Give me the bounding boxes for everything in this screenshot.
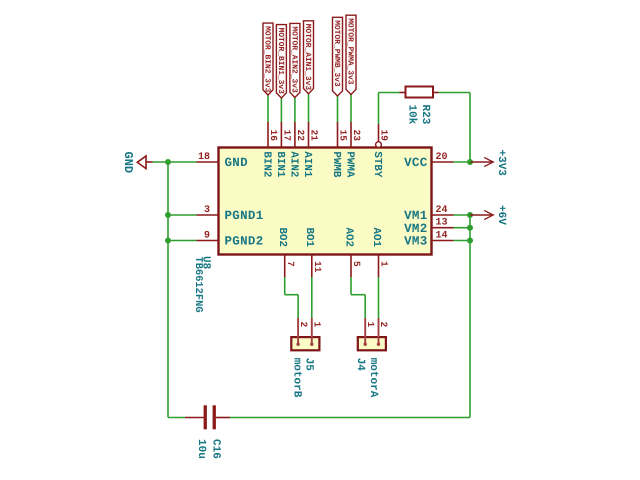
svg-text:GND: GND [121,152,135,174]
op-amp U8 TB6612FNG body [219,148,432,255]
svg-text:GND: GND [225,156,249,170]
pin 3 PGND1 (left) [197,205,264,223]
svg-text:AIN2: AIN2 [287,151,299,177]
wire bottom rail left segment [168,417,185,419]
connector J4 motorA body [358,337,386,350]
wire VM3 to junction [454,240,471,242]
svg-text:PGND2: PGND2 [225,235,264,249]
wire AO2 to J4 pin 1 (jog) [351,277,365,318]
svg-text:20: 20 [436,152,448,163]
svg-text:PWMB: PWMB [330,151,342,177]
svg-text:9: 9 [204,230,210,241]
wire flag MOTOR_AIN1_3V3 to pin [308,94,310,122]
svg-text:13: 13 [436,218,448,229]
svg-text:1: 1 [311,322,322,328]
svg-text:BO1: BO1 [303,228,315,248]
pin 15 PWMB (top) [330,122,349,178]
U8 value TB6612FNG [192,257,204,313]
svg-text:17: 17 [282,130,293,142]
wire bottom rail right segment [230,417,470,419]
wire VM1 to junction [454,214,471,216]
net label flag MOTOR_PWMA_3V3 [345,15,356,94]
junction VM1 [467,212,473,218]
C16 reference [209,439,221,459]
svg-text:18: 18 [198,152,210,163]
net label flag MOTOR_BIN1_3V3 [276,25,287,98]
pin 17 BIN1 (top) [274,122,293,178]
pin 20 VCC (right) [404,152,453,170]
pin 5 AO2 (bottom) [342,228,362,278]
svg-text:MOTOR_BIN1_3v3: MOTOR_BIN1_3v3 [276,28,285,95]
junction VM3 [467,238,473,244]
connector J5 motorB value [290,358,302,398]
R23 reference [419,105,431,125]
svg-text:5: 5 [351,261,362,267]
net label flag MOTOR_BIN2_3V3 [262,23,273,95]
net label flag MOTOR_AIN1_3V3 [303,21,314,94]
wire STBY up and over to R23 [379,93,400,125]
svg-text:1: 1 [379,261,390,267]
svg-text:10u: 10u [195,439,207,459]
svg-text:10k: 10k [405,105,417,125]
wire to PGND1 [168,214,197,216]
svg-text:16: 16 [268,130,279,142]
svg-text:23: 23 [351,130,362,142]
pin 14 VM3 (right) [404,230,453,248]
power flag +6V arrow [470,210,493,219]
svg-text:MOTOR_AIN2_3v3: MOTOR_AIN2_3v3 [289,26,298,93]
connector J4 motorA reference [354,358,366,372]
svg-text:15: 15 [338,130,349,142]
svg-text:R23: R23 [419,105,431,125]
wire flag MOTOR_PWMB_3V3 to pin [337,96,339,122]
svg-text:+6V: +6V [495,205,507,225]
svg-text:19: 19 [379,130,390,142]
connector J5 motorB reference [302,358,314,372]
capacitor C16 [185,405,230,429]
pin 1 AO1 (bottom) [370,228,390,278]
net label flag MOTOR_PWMB_3V3 [332,17,343,96]
pin 18 GND (left) [197,152,249,170]
svg-text:motorA: motorA [367,358,379,398]
svg-text:21: 21 [309,130,320,142]
svg-text:MOTOR_AIN1_3v3: MOTOR_AIN1_3v3 [303,24,312,91]
wire VM2 to junction [454,227,471,229]
svg-text:7: 7 [285,261,296,267]
pin 19 STBY (top, with open circle) [371,124,390,178]
R23 value 10k [405,105,417,125]
pin 16 BIN2 (top) [260,122,279,177]
pin 7 BO2 (bottom) [276,228,296,278]
svg-text:motorB: motorB [290,358,302,398]
svg-text:PWMA: PWMA [343,151,355,177]
junction VCC node [467,159,473,165]
svg-text:24: 24 [436,205,448,216]
svg-text:1: 1 [365,322,376,328]
pin 11 BO1 (bottom) [303,228,323,278]
connector J4 motorA value [367,358,379,398]
wire right rail vertical (VM net) [469,215,471,418]
svg-text:22: 22 [295,130,306,142]
svg-text:MOTOR_PWMA_3v3: MOTOR_PWMA_3v3 [345,18,354,85]
pin 13 VM2 (right) [404,218,453,236]
connector J5 motorB body [291,337,319,350]
wire flag MOTOR_BIN2_3V3 to pin [267,95,269,122]
svg-text:+3V3: +3V3 [495,150,507,177]
connector J5 motorB pin 1 [310,318,322,346]
svg-text:TB6612FNG: TB6612FNG [192,257,204,313]
connector J5 motorB pin 2 [296,318,308,346]
wire flag MOTOR_BIN1_3V3 to pin [280,98,282,122]
svg-text:J5: J5 [302,358,314,372]
junction left rail at GND [165,159,171,165]
svg-text:VCC: VCC [404,156,428,170]
junction left rail at PGND2 [165,238,171,244]
svg-text:MOTOR_PWMB_3v3: MOTOR_PWMB_3v3 [332,20,341,87]
connector J4 motorA pin 1 [364,318,376,346]
svg-text:AIN1: AIN1 [301,151,313,177]
junction left rail at PGND1 [165,212,171,218]
power flag +3V3 arrow [470,157,493,166]
wire flag MOTOR_PWMA_3V3 to pin [350,95,352,123]
wire R23 to +3V3 rail [439,93,471,163]
svg-text:BIN1: BIN1 [274,151,286,177]
svg-text:2: 2 [378,322,389,328]
svg-text:3: 3 [204,205,210,216]
wire to PGND2 [168,240,197,242]
pin 21 AIN1 (top) [301,122,320,178]
wire AO1 to J4 pin 2 [378,277,380,318]
wire left rail vertical [167,162,169,418]
C16 value 10u [195,439,207,459]
net label +3V3 [495,150,507,177]
svg-text:PGND1: PGND1 [225,209,264,223]
resistor R23 [400,87,439,98]
ground flag GND [121,152,152,174]
svg-text:STBY: STBY [371,151,383,177]
junction VM2 [467,225,473,231]
svg-text:C16: C16 [209,439,221,459]
svg-text:BIN2: BIN2 [260,151,272,177]
net label flag MOTOR_AIN2_3V3 [289,23,300,97]
svg-text:2: 2 [298,322,309,328]
svg-text:J4: J4 [354,358,366,372]
svg-text:BO2: BO2 [276,228,288,247]
svg-text:11: 11 [312,261,323,273]
pin 9 PGND2 (left) [197,230,264,248]
wire flag MOTOR_AIN2_3V3 to pin [294,98,296,123]
wire BO2 to J5 pin 2 (jog) [285,277,298,318]
svg-text:VM3: VM3 [404,235,427,249]
svg-text:AO1: AO1 [370,228,382,248]
svg-text:AO2: AO2 [342,228,354,247]
wire GND flag to pin 18 [153,161,197,163]
svg-text:MOTOR_BIN2_3v3: MOTOR_BIN2_3v3 [262,26,271,93]
pin 24 VM1 (right) [404,205,453,223]
svg-text:14: 14 [436,230,448,241]
pin 23 PWMA (top) [343,122,362,178]
wire VCC to +3V3 junction [454,161,471,163]
net label +6V [495,205,507,225]
connector J4 motorA pin 2 [377,318,389,346]
pin 22 AIN2 (top) [287,122,306,177]
U8 reference designator [200,256,212,270]
wire BO1 to J5 pin 1 [311,277,313,318]
